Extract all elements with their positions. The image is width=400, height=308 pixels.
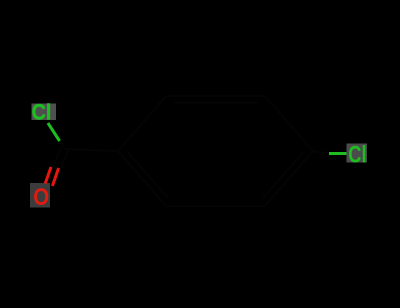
svg-text:O: O <box>33 184 49 211</box>
svg-text:Cl: Cl <box>32 101 52 125</box>
svg-text:Cl: Cl <box>348 141 366 168</box>
